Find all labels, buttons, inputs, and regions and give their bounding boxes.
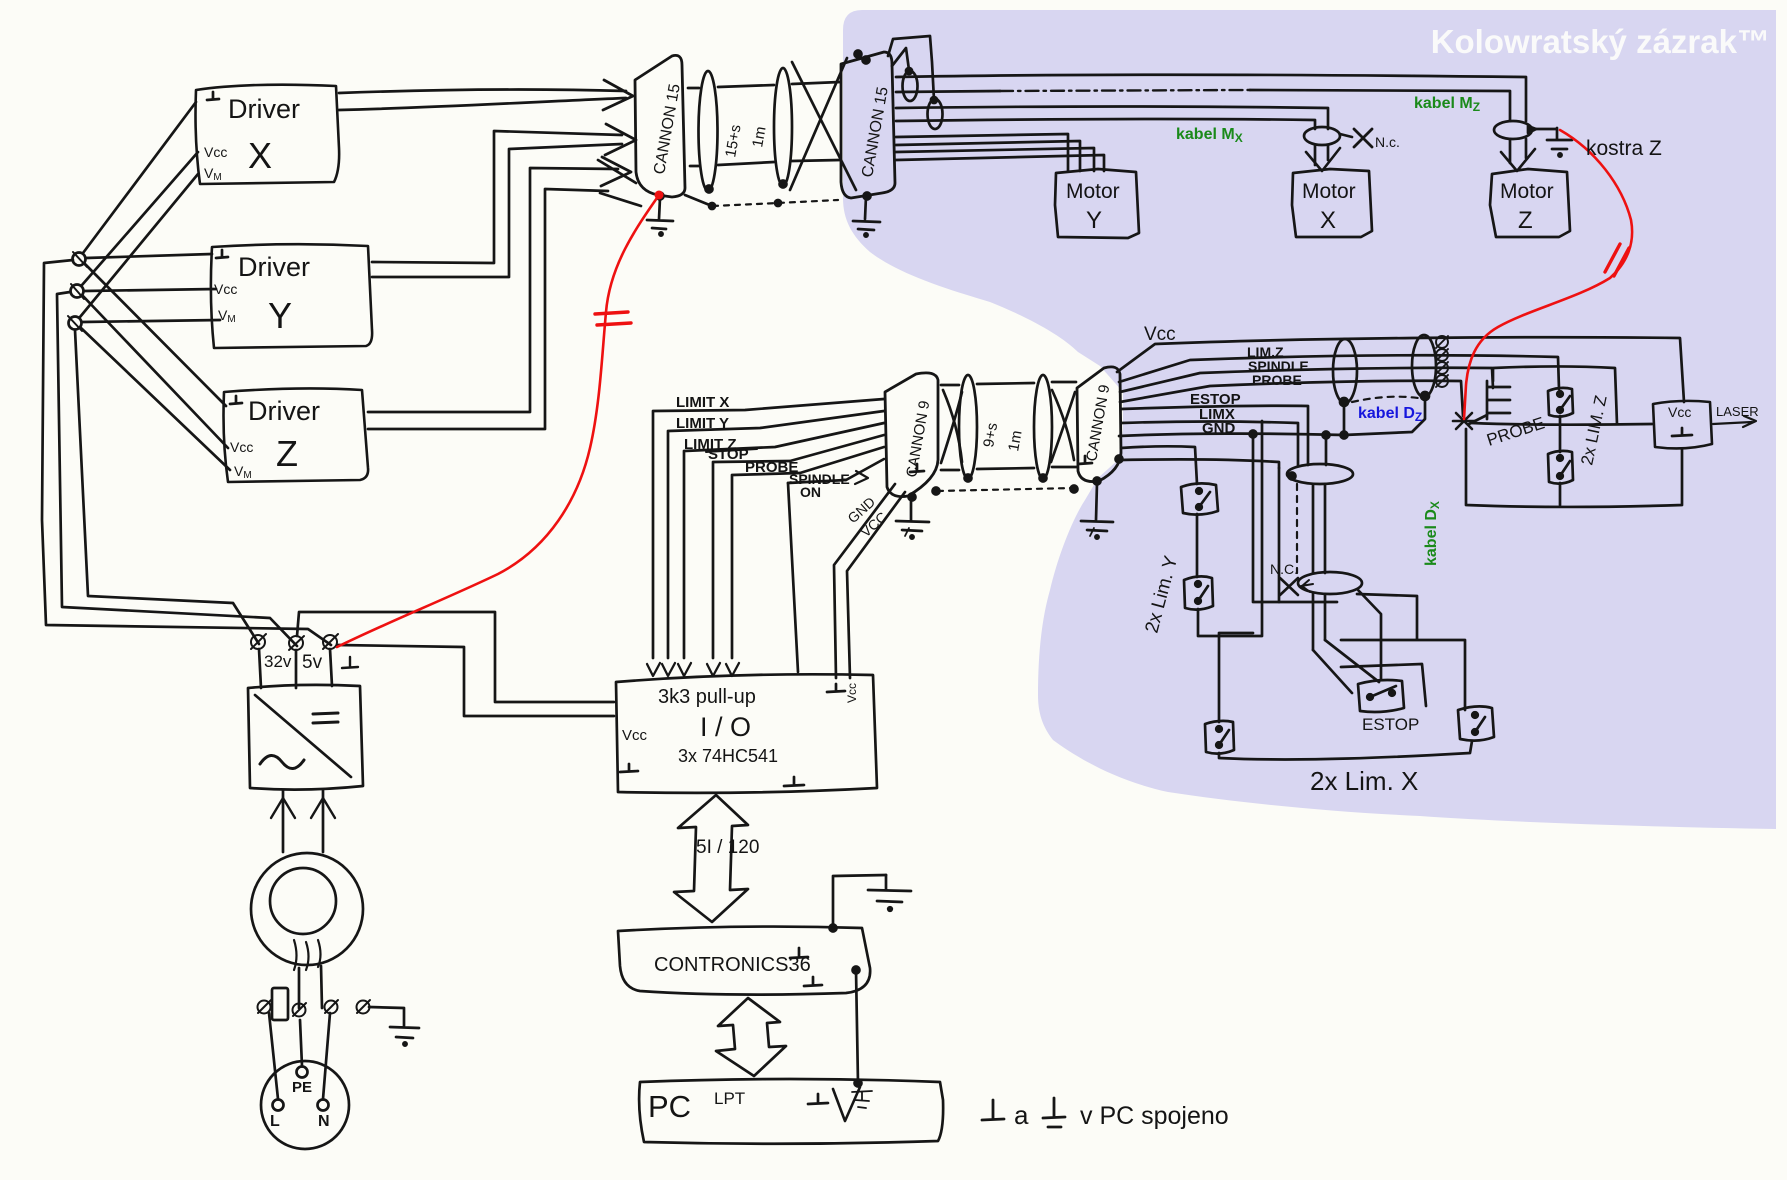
svg-text:X: X — [1320, 207, 1336, 234]
svg-text:LPT: LPT — [714, 1089, 745, 1108]
svg-text:kabel MZ: kabel MZ — [1414, 95, 1480, 114]
svg-text:Vcc: Vcc — [204, 144, 227, 160]
svg-text:PE: PE — [292, 1079, 312, 1096]
svg-text:a: a — [1014, 1100, 1029, 1130]
svg-text:Motor: Motor — [1302, 180, 1356, 203]
svg-text:N.C.: N.C. — [1270, 561, 1298, 577]
svg-text:kabel DZ: kabel DZ — [1358, 405, 1422, 424]
svg-text:N.c.: N.c. — [1375, 134, 1400, 150]
svg-text:N: N — [318, 1113, 330, 1130]
svg-text:3x 74HC541: 3x 74HC541 — [678, 746, 778, 766]
svg-text:Vcc: Vcc — [1668, 404, 1691, 420]
svg-text:1m: 1m — [1005, 429, 1025, 452]
svg-text:Z: Z — [276, 433, 298, 474]
svg-text:kabel MX: kabel MX — [1176, 126, 1243, 145]
svg-text:L: L — [270, 1113, 280, 1130]
svg-text:Y: Y — [1086, 207, 1102, 234]
svg-text:32v: 32v — [264, 652, 292, 671]
svg-text:5I / 120: 5I / 120 — [696, 837, 759, 858]
svg-text:1m: 1m — [749, 125, 769, 148]
svg-text:PC: PC — [648, 1089, 691, 1124]
svg-text:Z: Z — [1518, 207, 1533, 234]
svg-text:v PC spojeno: v PC spojeno — [1080, 1102, 1229, 1130]
svg-text:X: X — [248, 135, 272, 176]
svg-text:ESTOP: ESTOP — [1362, 715, 1419, 734]
svg-text:kabel DX: kabel DX — [1423, 501, 1442, 566]
svg-text:Driver: Driver — [248, 396, 320, 426]
svg-text:3k3 pull-up: 3k3 pull-up — [658, 686, 756, 708]
svg-text:kostra Z: kostra Z — [1586, 137, 1662, 160]
svg-text:LASER: LASER — [1716, 404, 1759, 419]
svg-text:Vcc: Vcc — [230, 439, 253, 455]
svg-text:Vcc: Vcc — [845, 683, 859, 703]
svg-text:Vcc: Vcc — [1144, 324, 1176, 345]
svg-text:Motor: Motor — [1500, 180, 1554, 203]
svg-text:2x Lim. X: 2x Lim. X — [1310, 766, 1418, 796]
svg-text:ON: ON — [800, 484, 821, 500]
svg-text:LIMIT X: LIMIT X — [676, 394, 729, 411]
svg-text:STOP: STOP — [708, 446, 749, 463]
svg-text:5v: 5v — [302, 652, 323, 673]
svg-text:GND: GND — [1202, 420, 1236, 437]
svg-text:PROBE: PROBE — [1252, 372, 1302, 388]
svg-text:Driver: Driver — [238, 252, 310, 282]
svg-text:Vcc: Vcc — [214, 281, 237, 297]
svg-text:LIMIT Y: LIMIT Y — [676, 415, 729, 432]
svg-text:Motor: Motor — [1066, 180, 1120, 203]
svg-text:Driver: Driver — [228, 94, 300, 124]
svg-text:CONTRONICS36: CONTRONICS36 — [654, 954, 811, 976]
svg-text:Y: Y — [268, 295, 292, 336]
svg-text:Kolowratský zázrak™: Kolowratský zázrak™ — [1431, 23, 1770, 60]
svg-text:Vcc: Vcc — [622, 727, 648, 744]
svg-text:I / O: I / O — [700, 712, 751, 742]
